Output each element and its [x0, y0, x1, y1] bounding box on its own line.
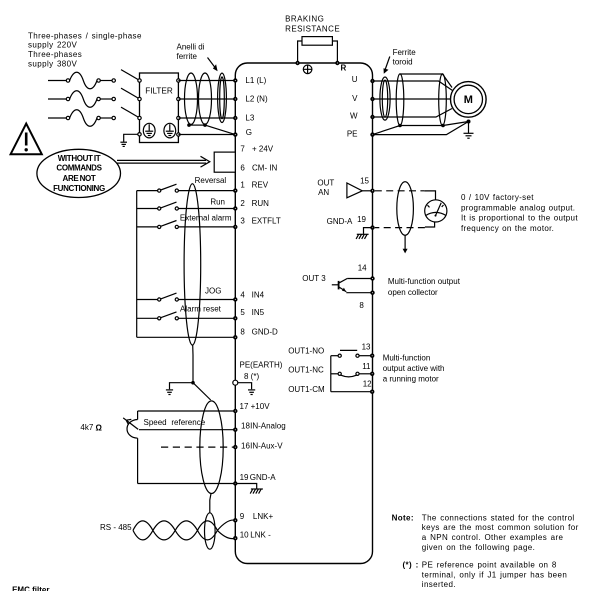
svg-text:EXTFLT: EXTFLT	[252, 217, 281, 226]
svg-text:terminal, only if J1 jumper ha: terminal, only if J1 jumper has been	[422, 570, 567, 579]
control cable shield ellipse	[184, 184, 201, 345]
terminal 17 +10V	[233, 402, 270, 413]
terminal block 7 / 6 (control supply)	[214, 145, 277, 173]
svg-text:12: 12	[363, 379, 372, 388]
wire: drain to earth	[170, 383, 194, 390]
switch S1 blade phase 1	[121, 70, 138, 80]
svg-text:L1 (L): L1 (L)	[245, 76, 266, 85]
wire L1: filter to drive	[178, 80, 235, 82]
warning triangle	[11, 124, 42, 155]
wire: common to terminal 12	[331, 391, 372, 393]
svg-text:4: 4	[240, 290, 245, 299]
junction dot braking right (terminal R)	[335, 61, 346, 73]
terminal 1 REV	[233, 181, 269, 193]
wire V to motor	[373, 98, 451, 100]
terminal 13	[362, 342, 375, 358]
protective earth symbol inside filter (right)	[164, 123, 176, 138]
wire: shield bottom bar	[189, 124, 205, 126]
motor M1	[451, 82, 487, 118]
filter input terminal pins (left)	[138, 79, 141, 136]
svg-text:6: 6	[240, 164, 245, 173]
svg-text:RUN: RUN	[252, 199, 270, 208]
svg-text:M: M	[464, 94, 473, 106]
label: Anelli di ferrite	[177, 43, 205, 61]
ferrite toroid (motor cable, double ellipse)	[380, 77, 390, 120]
filter output terminal pins (right)	[177, 79, 180, 136]
wire: PE terminal to earth	[238, 383, 252, 390]
svg-text:BRAKING: BRAKING	[285, 14, 324, 23]
svg-text:Note:: Note:	[392, 513, 414, 522]
svg-text:14: 14	[358, 263, 367, 272]
wire: dashed analog out to meter	[375, 190, 424, 192]
svg-text:output active with: output active with	[383, 364, 445, 373]
inverter drive main box	[235, 63, 372, 564]
terminal 10 LNK-	[233, 530, 271, 540]
svg-text:V: V	[352, 94, 358, 103]
wire: speed-ref shield drain down	[210, 494, 211, 513]
earth terminal symbol (circle plus)	[303, 65, 312, 74]
twisted pair wire A	[133, 520, 235, 540]
svg-text:PE(EARTH): PE(EARTH)	[240, 361, 283, 370]
terminal PE	[347, 130, 375, 139]
svg-text:supply 380V: supply 380V	[28, 59, 77, 68]
label: (*) footnote paragraph	[403, 561, 568, 589]
junction dot shield right	[203, 123, 207, 127]
svg-text:U: U	[352, 75, 358, 84]
control switch bus wire	[136, 191, 138, 338]
svg-text:WITHOUT IT: WITHOUT IT	[58, 154, 101, 163]
wire: drain to speed-ref shield	[193, 383, 211, 400]
svg-text:OUT1-CM: OUT1-CM	[288, 385, 325, 394]
wire: cylinder bottom edge	[400, 125, 443, 127]
svg-text:OUT1-NC: OUT1-NC	[288, 366, 324, 375]
terminal 11	[362, 362, 374, 376]
svg-text:8: 8	[240, 327, 245, 336]
wire: emitter to terminal 8	[346, 292, 372, 294]
terminal 16 IN-Aux-V	[233, 441, 283, 450]
svg-text:GND-A: GND-A	[250, 473, 276, 482]
wire: pot top to terminal 17	[138, 410, 236, 412]
wire: pot wiper to terminal 18	[139, 429, 235, 431]
svg-text:GND-A: GND-A	[327, 217, 353, 226]
junction dot shield bottom right	[441, 124, 445, 128]
svg-text:13: 13	[362, 342, 371, 351]
svg-text:CM- IN: CM- IN	[252, 164, 278, 173]
motor cable shield cylinder left ellipse	[396, 74, 404, 126]
terminal G	[233, 128, 252, 137]
svg-text:toroid: toroid	[393, 58, 413, 67]
svg-text:Reversal: Reversal	[195, 176, 227, 185]
svg-text:11: 11	[362, 362, 371, 371]
ferrite ring 2	[199, 73, 212, 124]
label: multi-function output open collector	[388, 277, 461, 297]
switch Reversal	[137, 176, 227, 192]
terminal L2 (N)	[233, 94, 268, 103]
terminal 19 GND-A (analog)	[327, 215, 375, 230]
terminal 2 RUN	[233, 199, 269, 211]
label OUT AN	[317, 178, 334, 197]
wire PE to shield	[373, 126, 401, 135]
wire: dashed aux input to terminal 16	[161, 446, 235, 448]
wire: pot bottom to terminal 19	[138, 483, 236, 485]
svg-text:Three-phases: Three-phases	[28, 50, 82, 59]
ground (motor earth)	[464, 122, 474, 139]
junction dot shield left	[187, 123, 191, 127]
analog meter	[425, 200, 447, 222]
wire: amp to terminal 15	[362, 190, 372, 192]
wire: Run to terminal 2	[178, 208, 235, 210]
wire: braking resistor left lead	[298, 41, 302, 63]
wire U to motor	[373, 81, 453, 91]
ferrite ring 1	[185, 73, 198, 124]
svg-text:JOG: JOG	[205, 287, 221, 296]
label: BRAKING RESISTANCE	[285, 14, 340, 33]
wire W to motor	[373, 109, 453, 118]
RS485 shield ring ellipse	[205, 513, 216, 549]
ground (analog GND hatched)	[356, 234, 369, 239]
wire shield to motor ground	[443, 122, 469, 126]
svg-text:8: 8	[359, 301, 364, 310]
svg-text:open collector: open collector	[388, 288, 438, 297]
svg-text:IN4: IN4	[252, 290, 265, 299]
svg-text:Ferrite: Ferrite	[393, 48, 417, 57]
svg-text:RS - 485: RS - 485	[100, 523, 132, 532]
svg-text:OUT1-NO: OUT1-NO	[288, 347, 324, 356]
terminal PE(EARTH) 8 (*)	[233, 361, 283, 386]
terminal 14	[358, 263, 375, 280]
jumper arrow from bubble to terminals 7/6	[117, 156, 210, 167]
svg-text:+ 24V: + 24V	[252, 145, 274, 154]
wire: meter bottom elbow	[425, 222, 435, 227]
svg-text:It is proportional to the outp: It is proportional to the output	[461, 214, 578, 223]
transistor Q1 (open collector OUT3)	[332, 279, 347, 292]
wire: solid elbow into meter top	[424, 191, 435, 204]
svg-text:PE reference point available o: PE reference point available on 8	[422, 561, 557, 570]
wire L2: filter to drive	[178, 98, 235, 100]
svg-text:GND-D: GND-D	[252, 327, 278, 336]
svg-text:inserted.: inserted.	[422, 580, 456, 589]
svg-text:ferrite: ferrite	[177, 52, 198, 61]
svg-text:IN5: IN5	[252, 308, 265, 317]
wire: cylinder top edge	[400, 74, 452, 88]
svg-text:15: 15	[360, 177, 369, 186]
svg-text:5: 5	[240, 308, 245, 317]
svg-text:Multi-function output: Multi-function output	[388, 277, 461, 286]
svg-text:The connections stated for the: The connections stated for the control	[422, 513, 575, 522]
switch External alarm	[137, 214, 232, 229]
wire: analog shield drain with arrow	[403, 235, 408, 253]
terminal U	[352, 75, 375, 84]
relay contact NC	[331, 372, 372, 377]
terminal 15 OUT-AN	[360, 177, 375, 194]
EMC filter box FILTER	[140, 73, 179, 143]
svg-text:19: 19	[240, 473, 249, 482]
switch Alarm reset	[137, 312, 179, 320]
arrow to ferrite toroid	[384, 57, 390, 74]
svg-text:W: W	[350, 111, 358, 120]
wire: GND-A internal ground stub	[235, 484, 256, 489]
terminal 4 IN4	[233, 290, 265, 301]
note bubble: WITHOUT IT COMMANDS ARE NOT FUNCTIONING	[37, 149, 121, 197]
wire: collector to terminal 14	[347, 278, 372, 280]
svg-text:R: R	[341, 64, 347, 73]
svg-text:IN-Analog: IN-Analog	[250, 421, 286, 430]
terminal 18 IN-Analog	[233, 421, 286, 432]
ground (filter external earth)	[120, 142, 127, 146]
svg-text:19: 19	[357, 215, 366, 224]
terminal 8	[359, 291, 374, 310]
svg-text:External alarm: External alarm	[180, 214, 232, 223]
svg-text:Three-phases / single-phase: Three-phases / single-phase	[28, 31, 142, 40]
svg-text:supply 220V: supply 220V	[28, 41, 77, 50]
wire: control shield drain	[192, 345, 194, 383]
junction dot shield bottom left	[398, 124, 402, 128]
analog output amplifier triangle	[347, 183, 362, 198]
wire: braking resistor right lead	[332, 41, 337, 63]
svg-text:2: 2	[240, 199, 245, 208]
junction dot control shield drain	[191, 381, 195, 385]
wire: shield drain to G	[205, 125, 235, 135]
svg-text:OUT: OUT	[317, 178, 334, 187]
switch JOG	[137, 293, 179, 301]
svg-text:Speed reference: Speed reference	[144, 418, 206, 427]
svg-text:ARE NOT: ARE NOT	[63, 174, 96, 183]
svg-text:REV: REV	[252, 181, 269, 190]
svg-text:G: G	[246, 128, 252, 137]
svg-text:PE: PE	[347, 130, 358, 139]
label: supply text	[28, 31, 142, 68]
svg-text:OUT 3: OUT 3	[302, 274, 326, 283]
potentiometer 4k7 (speed reference)	[123, 411, 138, 484]
arrow to ferrite rings	[208, 58, 218, 72]
terminal L1 (L)	[233, 76, 267, 85]
switch S2 blade phase 2	[121, 88, 138, 98]
terminal 19 GND-A	[233, 473, 276, 486]
svg-text:LNK -: LNK -	[250, 530, 271, 539]
wire: External alarm to terminal 3	[178, 226, 235, 228]
terminal 3 EXTFLT	[233, 217, 281, 229]
svg-text:Run: Run	[210, 198, 225, 207]
svg-text:9: 9	[240, 512, 245, 521]
terminal 5 IN5	[233, 308, 265, 320]
label: analog output description	[461, 193, 578, 233]
twisted pair wire B	[133, 521, 235, 540]
svg-text:frequency on the motor.: frequency on the motor.	[461, 224, 554, 233]
svg-text:16: 16	[241, 441, 250, 450]
svg-text:Anelli di: Anelli di	[177, 43, 205, 52]
wire: JOG to terminal 4	[178, 299, 235, 301]
wire PE to motor ground	[373, 122, 469, 135]
svg-text:3: 3	[240, 217, 245, 226]
relay contact NO	[331, 350, 372, 357]
svg-text:AN: AN	[318, 188, 329, 197]
fuse F1 (phase 1 wavy line)	[48, 72, 115, 89]
svg-text:1: 1	[240, 181, 245, 190]
svg-text:(*) :: (*) :	[403, 561, 419, 570]
fuse F2 (phase 2 wavy line)	[48, 91, 115, 108]
label: Ferrite toroid	[393, 48, 417, 66]
svg-text:IN-Aux-V: IN-Aux-V	[250, 441, 283, 450]
svg-text:keys are the most common solut: keys are the most common solution for	[422, 523, 579, 532]
svg-text:17 +10V: 17 +10V	[240, 402, 271, 411]
svg-text:given on the following page.: given on the following page.	[422, 543, 535, 552]
label: multi-function output active with a running motor	[383, 353, 445, 383]
svg-text:0 / 10V factory-set: 0 / 10V factory-set	[461, 193, 534, 202]
terminal V	[352, 94, 375, 103]
speed-ref cable shield ellipse	[200, 401, 223, 494]
label: Note paragraph	[392, 513, 579, 551]
wire: bus to terminal 8 GND-D	[137, 336, 236, 338]
switch S3 blade phase 3	[121, 107, 138, 117]
junction dot motor ground	[467, 120, 471, 124]
terminal W	[350, 111, 375, 120]
wire L3: filter to drive	[178, 117, 235, 119]
svg-text:RESISTANCE: RESISTANCE	[285, 24, 340, 33]
svg-text:COMMANDS: COMMANDS	[56, 164, 102, 173]
wire: Alarm reset to terminal 5	[178, 317, 235, 319]
protective earth symbol inside filter (left)	[143, 123, 155, 138]
wire: filter to external earth	[124, 134, 138, 142]
svg-text:10: 10	[240, 530, 249, 539]
svg-text:FILTER: FILTER	[145, 87, 173, 96]
ground (control shield earth)	[166, 390, 173, 395]
svg-text:8 (*): 8 (*)	[244, 372, 259, 381]
relay common bus wire	[330, 356, 332, 392]
ground (GND-A hatched)	[250, 489, 263, 494]
svg-text:4k7 Ω: 4k7 Ω	[80, 423, 102, 432]
wire: GND-A stub to hatched ground	[364, 228, 373, 234]
svg-text:7: 7	[240, 145, 245, 154]
svg-text:L3: L3	[245, 113, 254, 122]
ferrite ring 3 (double)	[218, 73, 227, 122]
terminal 9 LNK+	[233, 512, 273, 523]
svg-text:EMC filter: EMC filter	[12, 585, 49, 591]
wire: dashed return to terminal 19	[375, 227, 425, 229]
svg-text:a NPN control. Other examples: a NPN control. Other examples are	[422, 533, 564, 542]
junction dot braking left	[295, 61, 299, 65]
wire G: filter to drive	[178, 134, 235, 136]
svg-text:L2 (N): L2 (N)	[245, 94, 268, 103]
svg-text:Multi-function: Multi-function	[383, 353, 431, 362]
switch Run	[137, 198, 225, 211]
svg-text:a running motor: a running motor	[383, 375, 439, 384]
svg-text:18: 18	[241, 421, 250, 430]
analog out shield ellipse	[397, 182, 414, 236]
fuse F3 (phase 3 wavy line)	[48, 110, 115, 127]
wire: Reversal to terminal 1	[178, 190, 235, 192]
resistor R-brake	[302, 37, 332, 46]
terminal 12	[363, 379, 375, 394]
terminal L3	[233, 113, 255, 122]
ground (PE 8 earth)	[248, 390, 255, 395]
svg-text:FUNCTIONING: FUNCTIONING	[53, 184, 105, 193]
motor cable shield cylinder right ellipse	[439, 74, 447, 126]
svg-text:LNK+: LNK+	[253, 512, 274, 521]
svg-text:programmable analog output.: programmable analog output.	[461, 203, 575, 212]
terminal 8 GND-D	[233, 327, 278, 339]
